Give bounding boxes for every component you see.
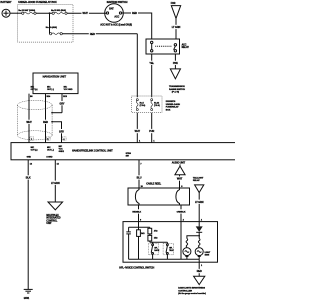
wire WHT audio unit to cable reel [179,175,181,188]
bulb L2 [195,236,211,260]
svg-text:RANGE SWITCH: RANGE SWITCH [169,88,185,91]
wire RED ignition switch to ACC relay [122,13,152,39]
svg-text:BATTERY: BATTERY [0,1,11,4]
svg-text:OUT (–): OUT (–) [47,150,54,152]
svg-text:LT GRN: LT GRN [172,26,181,29]
svg-text:47Ω: 47Ω [154,230,158,233]
handsfreelink control unit [11,143,237,160]
wire switch feed rail [150,241,168,243]
arrow to dash lights brightness controller [178,276,206,295]
wire junction down to fuse No.10 [49,13,51,34]
svg-text:GND: GND [27,157,32,159]
wire RED mic- [45,94,47,143]
svg-text:MULTIPLEX: MULTIPLEX [46,215,59,217]
diode D1 [196,222,203,236]
svg-text:S GND: S GND [46,157,53,159]
wire PUR driver's box to HFL unit [151,113,153,143]
svg-text:UNIT: UNIT [46,223,52,225]
svg-text:OUT (–): OUT (–) [47,89,54,91]
svg-text:WHT: WHT [135,130,141,133]
svg-text:INTEGRATED: INTEGRATED [46,217,60,220]
wire LT GRN taillight relay to switch [198,193,200,222]
battery B1 [0,1,11,17]
svg-text:RED: RED [197,270,202,273]
wire YEL ACC relay down [151,54,153,97]
svg-text:DASH LIGHTS BRIGHTNESS: DASH LIGHTS BRIGHTNESS [178,287,205,290]
switch HFL TALK [163,242,174,259]
wire LT GRN HFL unit to multiplex unit [54,160,56,202]
wire lamp branch [187,236,199,239]
ACC relay [146,39,189,54]
capacitor C1 [126,227,131,259]
resistor R1 [137,230,145,259]
shield junction node [51,112,53,114]
wire LT GRN arrow to ACC relay [175,18,177,39]
wire gnd to shield [52,112,62,114]
svg-text:DRIVER'S: DRIVER'S [166,101,176,103]
svg-text:BACK: BACK [154,249,160,252]
svg-text:WHT: WHT [26,121,32,124]
rail bottom [129,258,200,260]
svg-text:BLU: BLU [137,177,142,180]
wire RED fuse No.10 to vertical [62,33,137,35]
wire RED lamps to dash brightness controller [198,259,200,276]
svg-text:RED: RED [90,33,95,36]
svg-text:AUDIO UNIT: AUDIO UNIT [172,162,186,165]
svg-text:15Ω: 15Ω [154,238,158,240]
wire fuse No.22 to junction [36,12,52,14]
svg-text:BLK: BLK [26,177,31,180]
wire RED down to driver's box [136,34,138,97]
pin 5 connector [46,137,50,141]
arrow to multiplex integrated control unit [46,202,62,225]
fuse No.5 (7.5A) [136,99,145,111]
junction node lamps [198,235,200,237]
svg-text:IGNITION SWITCH: IGNITION SWITCH [107,1,128,4]
svg-text:CONTROL: CONTROL [46,220,58,222]
svg-text:No.23 IG1 (50A): No.23 IG1 (50A) [51,9,66,12]
driver's under-dash fuse/relay box [132,96,181,113]
svg-text:(P or N): (P or N) [172,92,179,94]
svg-text:OUT (+): OUT (+) [31,150,38,152]
svg-text:(7.5 A): (7.5 A) [140,104,146,107]
svg-text:1kΩ: 1kΩ [141,233,145,235]
svg-text:FUSE/RELAY: FUSE/RELAY [166,106,179,109]
svg-text:SIGN: SIGN [205,255,210,257]
pin 7 connector [30,137,34,141]
wire GRY mic gnd [61,94,63,113]
audio unit arrow [172,162,186,175]
ignition switch [100,1,132,27]
rail top [129,226,150,228]
svg-text:GRY: GRY [59,130,64,133]
fuse No.32 (7.5A) [151,99,160,111]
svg-text:ACC: ACC [182,43,187,46]
svg-text:ORN/BLK: ORN/BLK [177,212,186,214]
svg-text:(At the gauge control module): (At the gauge control module) [178,292,206,295]
under-hood fuse/relay box [18,1,74,42]
svg-text:WHT: WHT [177,178,183,181]
shielded cable (shield cylinder) [18,100,53,139]
svg-text:OUT (+): OUT (+) [31,89,38,91]
navigation unit [31,73,78,94]
svg-text:SW: SW [126,155,129,157]
wire BLU HFL unit to cable reel [138,160,140,188]
fuse No.10 (40A) [46,26,63,35]
wire red/blk into ladder [138,222,140,230]
svg-text:RED/BLK: RED/BLK [132,212,141,214]
svg-text:RELAY: RELAY [182,46,190,49]
wire WHT fuse box to ignition switch [67,12,106,14]
svg-text:ACC NOT in ACC (I) and ON (II): ACC NOT in ACC (I) and ON (II) [100,24,132,27]
svg-text:No.22 BAT (100A): No.22 BAT (100A) [18,9,35,12]
svg-text:PUR: PUR [149,130,154,133]
cable reel [128,183,190,205]
svg-text:UNDER–HOOD FUSE/RELAY BOX: UNDER–HOOD FUSE/RELAY BOX [18,1,57,4]
svg-text:RED: RED [43,121,48,124]
junction node [49,12,51,14]
svg-text:HFL–/VOICE CONTROL SWITCH: HFL–/VOICE CONTROL SWITCH [119,266,154,269]
svg-text:BAT: BAT [109,8,114,11]
taillight relay arrow [193,176,204,192]
svg-text:GRY: GRY [60,102,65,105]
HFL/voice control switch box [119,222,217,270]
svg-text:ACC: ACC [114,16,119,19]
resistor R3 [148,234,158,242]
svg-text:YEL: YEL [149,62,154,65]
svg-text:RELAY: RELAY [193,179,200,182]
resistor R2 [148,227,158,234]
bulb L1 [183,239,191,260]
wire RED/BLK cable reel to switch [138,205,140,222]
svg-text:VCC GND: VCC GND [64,89,73,91]
svg-text:HANDSFREELINK CONTROL UNIT: HANDSFREELINK CONTROL UNIT [72,149,113,153]
pin 6 connector [62,137,66,141]
svg-text:WHT: WHT [83,12,89,15]
svg-text:(7.5 A): (7.5 A) [154,104,160,107]
wire BLK HFL unit to ground [27,160,29,289]
wire orn/blk to rail [180,222,182,260]
svg-text:CABLE REEL: CABLE REEL [146,183,161,186]
arrow FOR (from another circuit) [171,3,181,19]
arrow to transmission range switch [169,69,185,94]
svg-text:TAILLIGHT: TAILLIGHT [193,176,204,179]
svg-text:TRANSMISSION: TRANSMISSION [169,85,185,88]
svg-text:PNK: PNK [173,62,178,65]
svg-text:LT GRN: LT GRN [51,182,60,185]
svg-text:BOX: BOX [166,109,171,111]
fuse No.23 IG1 (50A) [51,9,67,14]
wire WHT driver's box to HFL unit [136,113,138,143]
shield junction node lower [51,121,53,123]
svg-text:UNDER–DASH: UNDER–DASH [166,103,181,106]
wire GRY shield to HFL unit [52,122,61,143]
fuse No.22 BAT (100A) [18,9,36,14]
wire WHT mic+ [28,94,30,143]
wire battery to fuse box [10,12,22,14]
switch HFL BACK [148,242,160,259]
wire PNK ACC relay to arrow [174,54,176,69]
svg-text:LT GRN: LT GRN [195,201,204,204]
wire ORN/BLK cable reel to switch [180,205,182,222]
svg-text:NAVIGATION UNIT: NAVIGATION UNIT [43,75,67,79]
svg-text:RED: RED [132,12,137,15]
svg-text:FOR: FOR [171,3,176,5]
ground G501 [24,289,33,300]
svg-text:No.10 (40A): No.10 (40A) [46,26,57,29]
